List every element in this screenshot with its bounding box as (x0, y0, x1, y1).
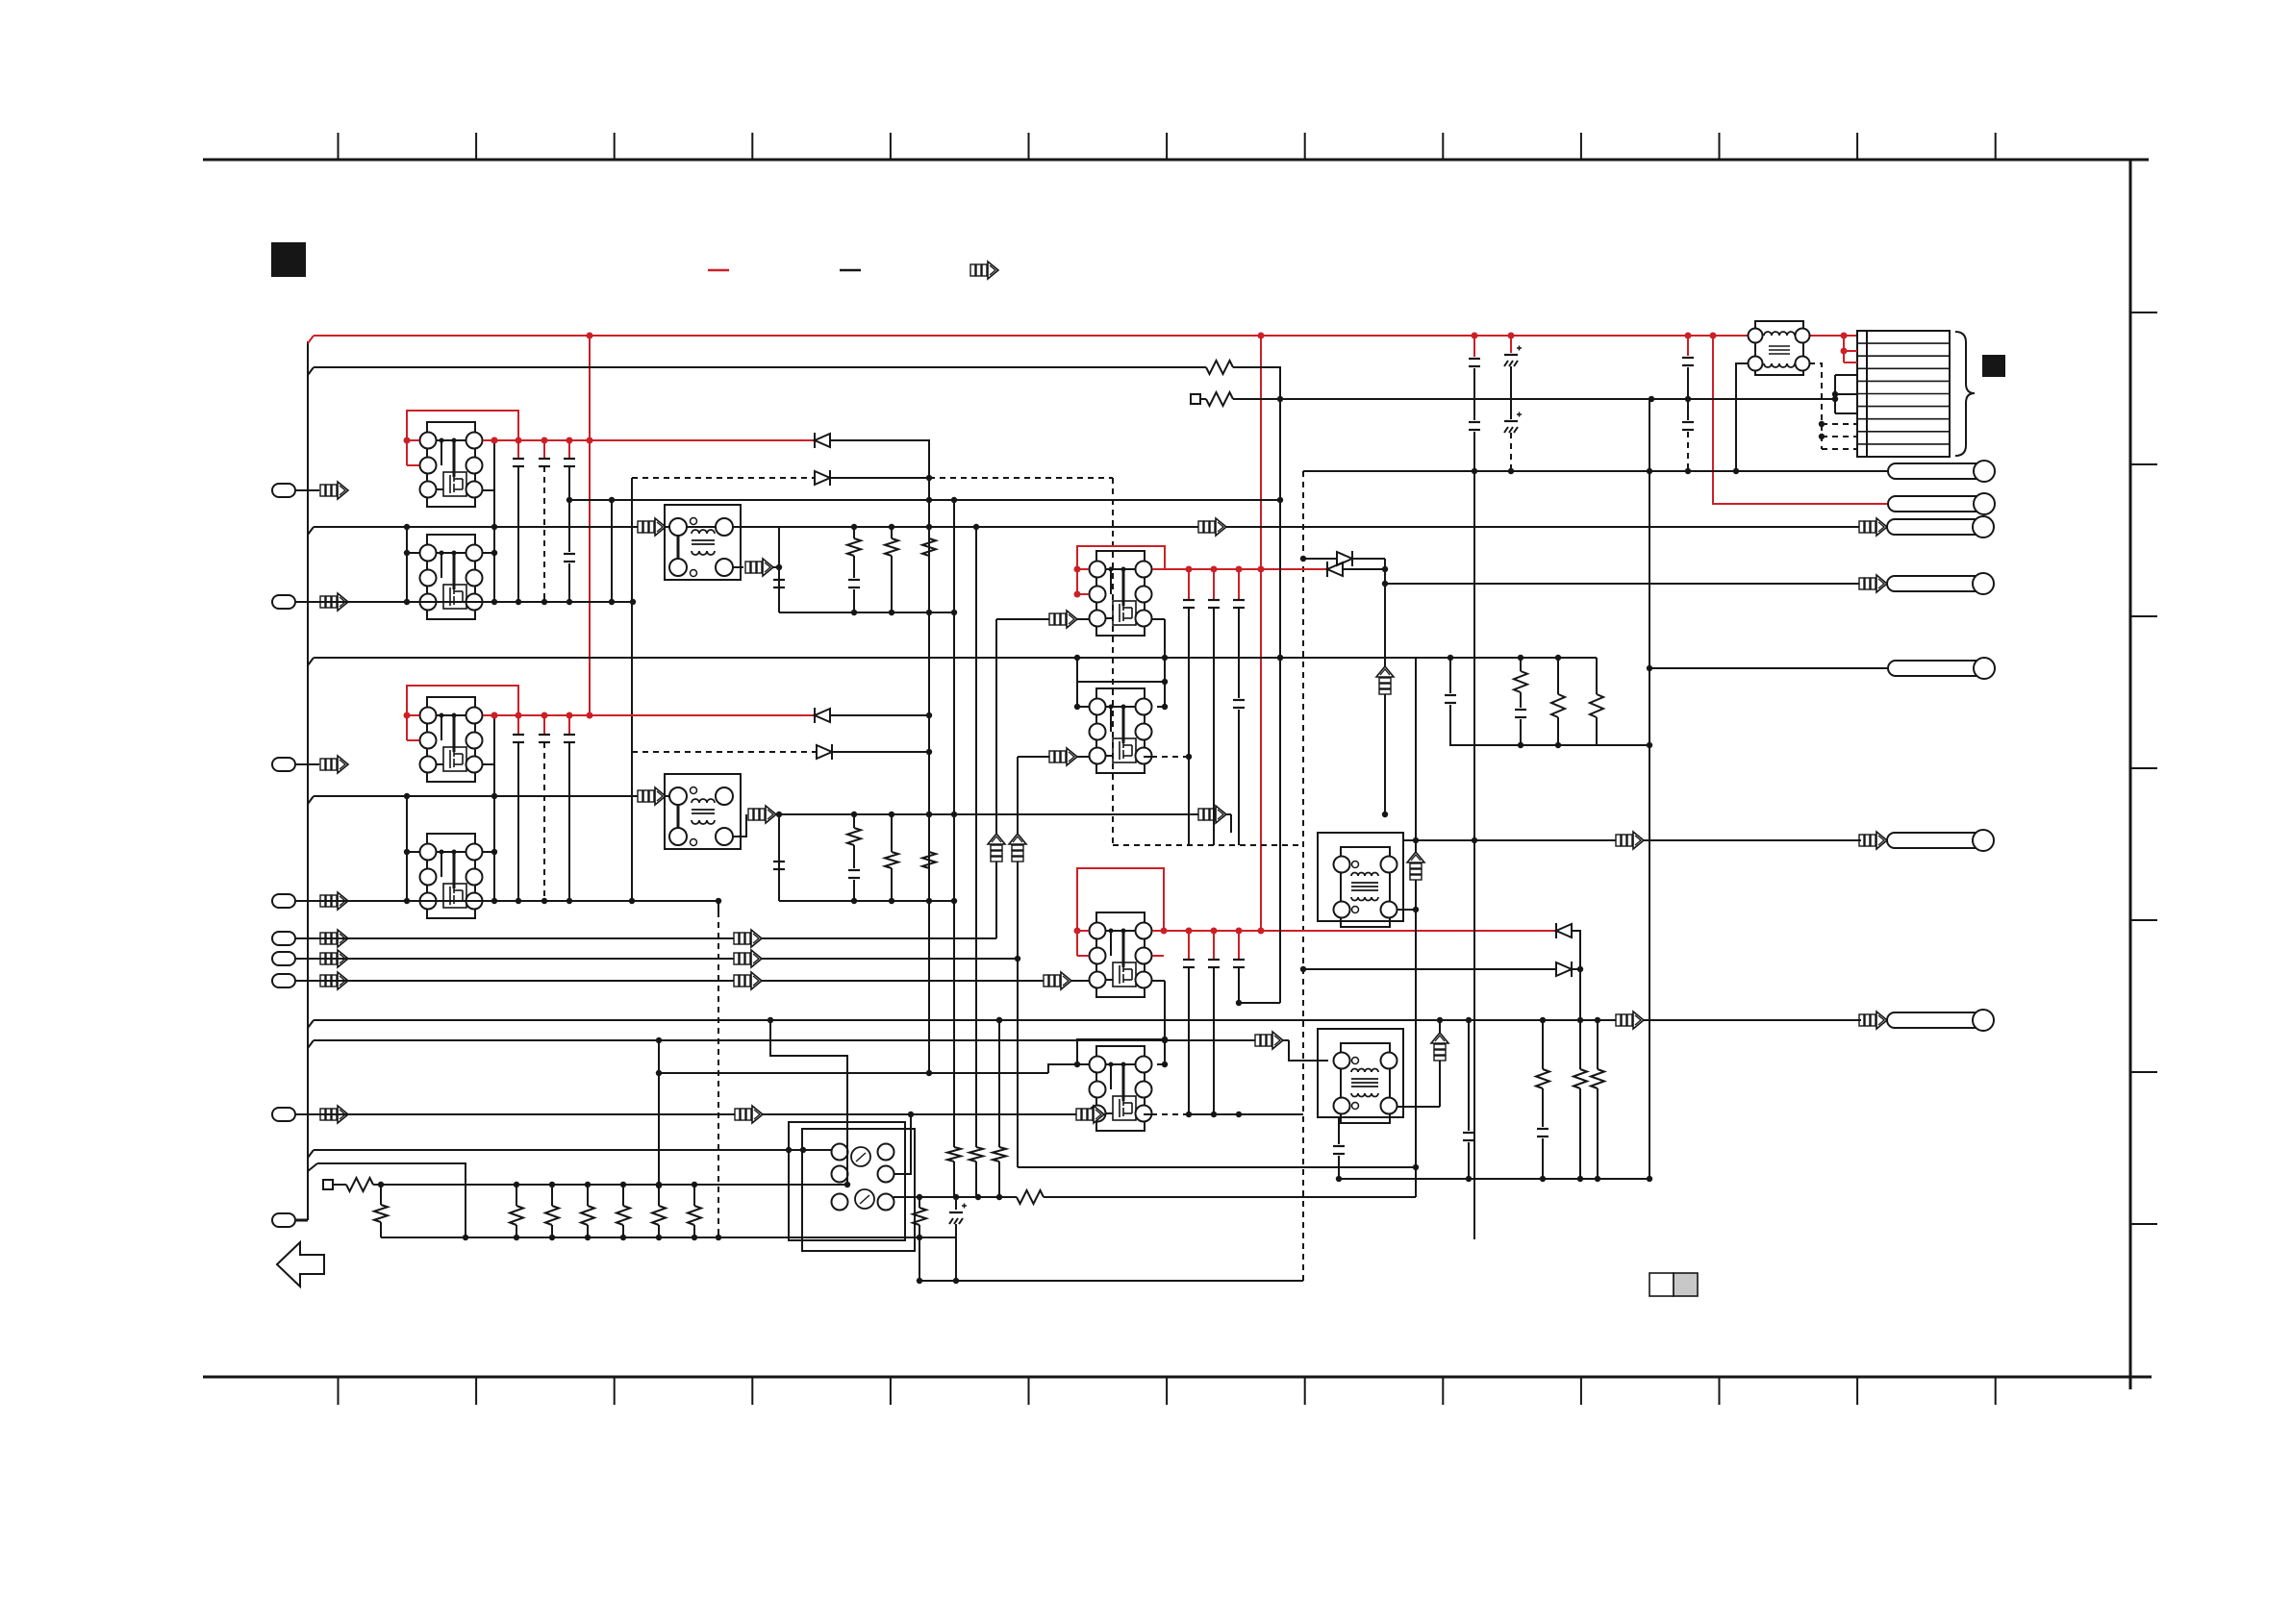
mosfet module Q5 (1090, 551, 1152, 636)
transformer T2 (665, 774, 741, 849)
capacitor C16 (1469, 421, 1480, 423)
capacitor C5 (848, 579, 860, 581)
connector terminal P5 (272, 932, 295, 945)
net arrow T1 out (732, 566, 743, 568)
wire RC1 left (778, 527, 780, 612)
wire (770, 1020, 847, 1185)
capacitor C20 (1682, 421, 1694, 423)
black loop Q6 (1077, 682, 1165, 707)
dashed feedback wire y497 (632, 477, 815, 479)
diode D4 (817, 745, 832, 759)
net arrow (1198, 806, 1226, 823)
wire RC3 bottom (1449, 744, 1649, 746)
net arrow T2 out (732, 814, 746, 837)
output lug J2 (1888, 496, 1984, 512)
net arrow up (1407, 852, 1424, 880)
vertical wire x657 (631, 478, 633, 901)
page link arrow (277, 1242, 324, 1287)
red vertical net x1311 (1260, 336, 1262, 931)
net arrow (1198, 518, 1226, 536)
wire (406, 796, 408, 901)
left bus wire (307, 341, 309, 1220)
wire bus y1082 (308, 1040, 314, 1048)
net arrow (320, 892, 348, 910)
optocoupler U1 (789, 1122, 905, 1240)
capacitor C29 column (1338, 1117, 1340, 1144)
capacitor C25 (1515, 709, 1526, 711)
net arrow (638, 518, 666, 536)
red gate loop Q7 (1077, 868, 1164, 956)
wire bus y548 (308, 527, 314, 535)
return wire y1332 (919, 1237, 920, 1281)
net arrow (320, 1106, 348, 1123)
wire row6 (296, 958, 1018, 960)
resistor R16 (919, 1197, 920, 1208)
wire row4 bus (296, 900, 718, 902)
net arrow (1044, 972, 1071, 989)
red wire to pill P2 (1713, 336, 1888, 504)
vertical rail x992 (953, 500, 955, 1147)
legend box white (1649, 1273, 1674, 1296)
resistor R19 (993, 1147, 1006, 1162)
vertical rail x1331 (1279, 367, 1281, 1003)
wire RC2 bottom (779, 900, 954, 902)
wire rail x966 (830, 440, 929, 1073)
resistor R20 (346, 1178, 373, 1191)
net arrow (320, 756, 348, 773)
pin bracket (1834, 375, 1836, 413)
wire bus y520 (569, 499, 1280, 501)
frame tick marks top/bottom (338, 133, 340, 160)
net arrow (1859, 1012, 1887, 1029)
output lug J3 (1887, 519, 1983, 535)
vertical wire x1472 (1415, 658, 1417, 1197)
frame border (203, 159, 2149, 162)
connector terminal P2 (272, 595, 295, 609)
resistor R4 (891, 527, 893, 538)
wire ladder bottom bus (381, 1237, 956, 1238)
connector brace (1955, 332, 1975, 456)
vertical rail x1015 (975, 527, 977, 1147)
resistor R3 (853, 527, 855, 538)
connector terminal P4 (272, 894, 295, 908)
transformer T1 (665, 505, 741, 580)
net arrow (1616, 832, 1644, 849)
resistor R14 (1597, 1020, 1599, 1069)
capacitor C3 (568, 440, 570, 459)
mosfet module Q1 (420, 422, 483, 507)
wire RC2 left (778, 814, 780, 901)
electrolytic C28 (955, 1197, 957, 1210)
output lug J7 (1887, 1012, 1983, 1028)
legend box gray (1674, 1273, 1698, 1296)
capacitor C6 (517, 715, 519, 735)
vertical rail x1533 (1473, 471, 1475, 1239)
capacitor C27 (1537, 1128, 1548, 1130)
wire bus y1061 (308, 1020, 314, 1028)
wire row8 (296, 1113, 1100, 1115)
resistor R9 (1520, 658, 1522, 671)
capacitor C1 (517, 440, 519, 459)
wire row2 bus (296, 601, 633, 603)
wire bus y845 (779, 813, 1231, 815)
T4 output path (1397, 1106, 1440, 1108)
red gate loop Q3 (407, 686, 518, 740)
capacitor C4 (773, 579, 785, 581)
red vertical net x613 (589, 336, 591, 715)
net arrow (1255, 1032, 1283, 1049)
capacitor C21 (1188, 931, 1190, 960)
mosfet module Q8 (1090, 1046, 1152, 1131)
gate rail x1058 (1017, 757, 1019, 1167)
connector terminal P1 (272, 484, 295, 497)
vertical rail x1715 (1649, 399, 1650, 1179)
net arrow (320, 930, 348, 947)
wire (830, 714, 929, 716)
wire bus y684 to pill P5 (308, 658, 314, 665)
wire (493, 440, 495, 602)
T2 input wire y828 (308, 796, 314, 804)
wire (1164, 981, 1166, 1040)
wire (1343, 568, 1385, 570)
wire (998, 1020, 1000, 1147)
wire bus y490 to pill P1 (1303, 470, 1888, 472)
resistor R11 (1596, 658, 1598, 694)
diode D6 wire y581 (1303, 558, 1337, 560)
dashed rail x747 (718, 912, 719, 1237)
wire (1164, 619, 1166, 658)
wire (1439, 1020, 1441, 1107)
resistor R17 (947, 1147, 961, 1162)
capacitor C19 column (1687, 336, 1689, 356)
gate drive wire Q6 (1018, 756, 1049, 758)
resistor R6 (853, 814, 855, 828)
capacitor C24 (1445, 694, 1456, 696)
diode D5 (1326, 562, 1328, 577)
net arrow (1859, 518, 1887, 536)
wire ladder top bus (373, 1184, 847, 1186)
wire stub (483, 489, 494, 491)
test point square TP1 (323, 1180, 333, 1189)
mosfet module Q7 (1090, 912, 1152, 997)
connector terminal P9 (272, 1213, 295, 1227)
red pin stubs (1843, 336, 1845, 362)
net arrow (1859, 575, 1887, 592)
legend black wire sample (840, 269, 861, 272)
wire (493, 715, 495, 901)
mosfet module Q6 (1090, 688, 1152, 773)
net arrow (1616, 1012, 1644, 1029)
wire (1144, 1113, 1151, 1115)
wire (1572, 931, 1580, 1020)
legend net arrow sample (970, 262, 998, 279)
dashed rail x1355 (1302, 471, 1304, 1281)
wire row5 (296, 937, 996, 939)
net arrow up (1009, 834, 1026, 862)
vertical rail x1440 (1384, 559, 1386, 814)
test point square (1191, 394, 1200, 404)
resistor R10 (1557, 658, 1559, 694)
vertical wire x747 (718, 901, 719, 912)
wire bus y415 (1233, 398, 1835, 400)
wire (1164, 658, 1166, 682)
resistor R15 (1017, 1190, 1044, 1204)
wire (1233, 367, 1280, 399)
capacitor C11 (1188, 569, 1190, 600)
electrolytic C17 column (1510, 336, 1512, 353)
net arrow up (988, 834, 1005, 862)
connector terminal P3 (272, 758, 295, 771)
net arrow (638, 787, 666, 805)
net arrow (320, 972, 348, 989)
wire RC1 bottom (779, 612, 954, 613)
output lug J6 (1887, 833, 1983, 848)
wire to pill P5 (1649, 667, 1888, 669)
mosfet module Q2 (420, 535, 483, 619)
black index square right (1983, 356, 2004, 376)
wire (1239, 1002, 1280, 1004)
common-mode choke L1 (1755, 321, 1803, 375)
gate rail x1036 (995, 619, 997, 938)
red gate loop Q5 (1077, 546, 1165, 594)
capacitor C13 (1238, 569, 1240, 600)
diode D2 (815, 471, 830, 485)
red power bus B+ (308, 336, 314, 343)
capacitor C26 (1463, 1132, 1474, 1134)
dashed boundary (929, 477, 1113, 479)
choke lower winding wires (1736, 363, 1749, 471)
net arrow (320, 482, 348, 499)
capacitor C22 (1213, 931, 1215, 960)
connector CN1 (1857, 331, 1950, 457)
capacitor C14 (1233, 699, 1245, 701)
transformer T3 (1318, 833, 1403, 927)
wire (406, 527, 408, 602)
net arrow (320, 593, 348, 611)
mosfet module Q4 (420, 834, 483, 918)
wire (1289, 1040, 1328, 1061)
red drain wire Q3 (483, 714, 815, 716)
wire stub (483, 763, 494, 765)
mosfet module Q3 (420, 697, 483, 782)
net arrow up (1376, 666, 1394, 694)
black loop Q8 (1077, 1039, 1165, 1064)
dashed feedback wire y782 (632, 751, 817, 753)
output lug J1 (1888, 463, 1984, 479)
resistor R12 (1542, 1020, 1544, 1069)
red gate loop Q1 (407, 411, 518, 465)
wire RC4 bottom (1339, 1178, 1649, 1180)
legend red wire sample (708, 269, 729, 272)
resistor R13 (1579, 1020, 1581, 1069)
output lug J4 (1887, 576, 1983, 591)
wire row7 (296, 980, 1089, 982)
capacitor C2 (543, 440, 545, 459)
wire bus y1214 (1018, 1166, 1416, 1168)
resistor R27 branch (380, 1185, 382, 1205)
gate drive wire Q5 (996, 618, 1049, 620)
frame tick marks right (2130, 312, 2157, 313)
wire (1144, 756, 1151, 758)
output lug J5 (1888, 661, 1984, 676)
diode D1 (814, 433, 816, 448)
vertical wire x685 (658, 1040, 660, 1186)
red drain wire Q5 (1152, 568, 1327, 570)
opto output stub (894, 1114, 911, 1174)
capacitor C15 column (1473, 336, 1475, 357)
capacitor C10 (848, 869, 860, 871)
capacitor C12 (1213, 569, 1215, 600)
connector terminal P8 (272, 1108, 295, 1121)
ladder resistors R21-R26 (516, 1185, 517, 1206)
capacitor C7 (543, 715, 545, 735)
capacitor C8 (568, 715, 570, 735)
wire x636 (611, 500, 613, 602)
connector terminal P6 (272, 952, 295, 965)
wire bus y607 to pill P4 (1385, 583, 1859, 585)
net arrow (1859, 832, 1887, 849)
opto bottom bus y1245 (894, 1196, 1017, 1198)
wire (568, 500, 570, 552)
connector terminal P7 (272, 974, 295, 987)
wire y1196 (308, 1150, 314, 1158)
black index square top-left (272, 243, 305, 276)
resistor R5 (928, 527, 930, 538)
wire bus y874 to pill P6 (1403, 839, 1861, 841)
wire (1164, 1039, 1166, 1040)
wire y1210 stub (308, 1163, 317, 1171)
transformer T4 (1318, 1029, 1403, 1123)
red drain wire Q1 (483, 439, 815, 441)
wire bus y382 (308, 367, 314, 375)
resistor R18 (969, 1147, 983, 1162)
diode D7 (1555, 923, 1557, 938)
resistor R8 (928, 814, 930, 852)
wire (1397, 909, 1416, 911)
capacitor C9 (773, 861, 785, 862)
capacitor C23 (1238, 931, 1240, 960)
diode D3 (814, 708, 816, 723)
electrolytic C18 (1504, 420, 1518, 422)
red drain wire Q7 (1152, 930, 1556, 932)
resistor R7 (891, 814, 893, 852)
net arrow (320, 950, 348, 967)
net arrow up (1431, 1033, 1448, 1061)
resistor R1 (1206, 361, 1233, 374)
resistor R2 (1206, 392, 1233, 406)
diode D8 wire y1008 (1303, 968, 1556, 970)
